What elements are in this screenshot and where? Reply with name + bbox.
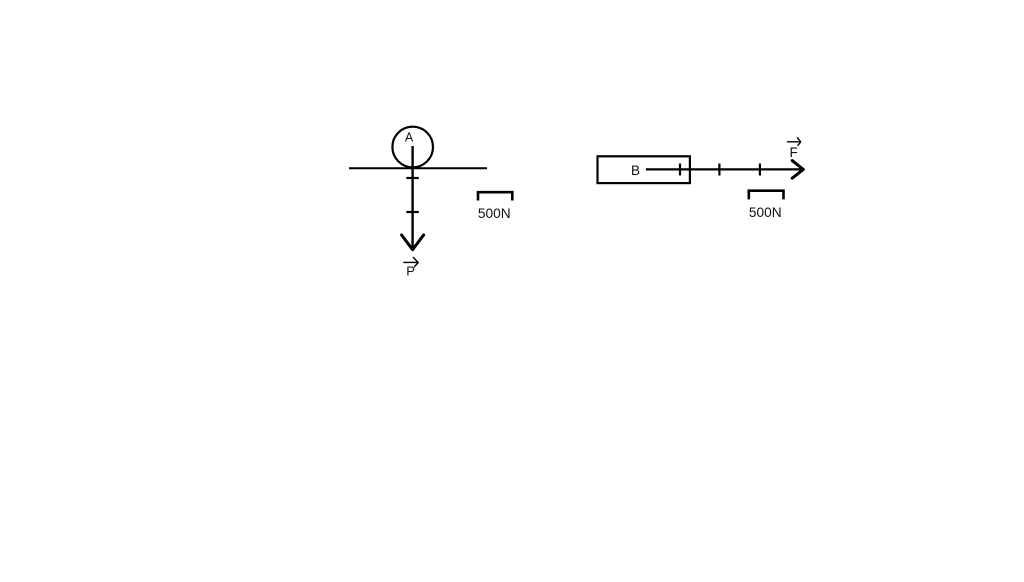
svg-text:500N: 500N: [749, 205, 782, 220]
tick mark 2 on vector F: [718, 164, 720, 176]
arrowhead of vector P: [402, 235, 424, 250]
ball A circle: [392, 127, 433, 168]
block B rectangle: [598, 156, 690, 183]
tick mark 1 on vector F: [679, 164, 681, 176]
left scale bracket: [478, 192, 512, 200]
vector arrow symbol over P: [404, 257, 418, 266]
right scale bracket: [749, 191, 784, 200]
svg-text:B: B: [631, 163, 640, 178]
arrowhead of vector F: [792, 161, 803, 179]
tick mark 1 on vector P: [406, 177, 419, 179]
svg-text:A: A: [405, 131, 414, 145]
tick mark 2 on vector P: [406, 211, 419, 213]
svg-text:P: P: [406, 263, 415, 278]
vector arrow symbol over F: [787, 138, 800, 146]
svg-text:500N: 500N: [478, 206, 511, 221]
svg-text:F: F: [789, 145, 797, 160]
ground line under ball A: [349, 167, 487, 169]
tick mark 3 on vector F: [759, 164, 761, 176]
force vector P shaft: [411, 146, 413, 248]
force vector F shaft: [646, 168, 802, 170]
